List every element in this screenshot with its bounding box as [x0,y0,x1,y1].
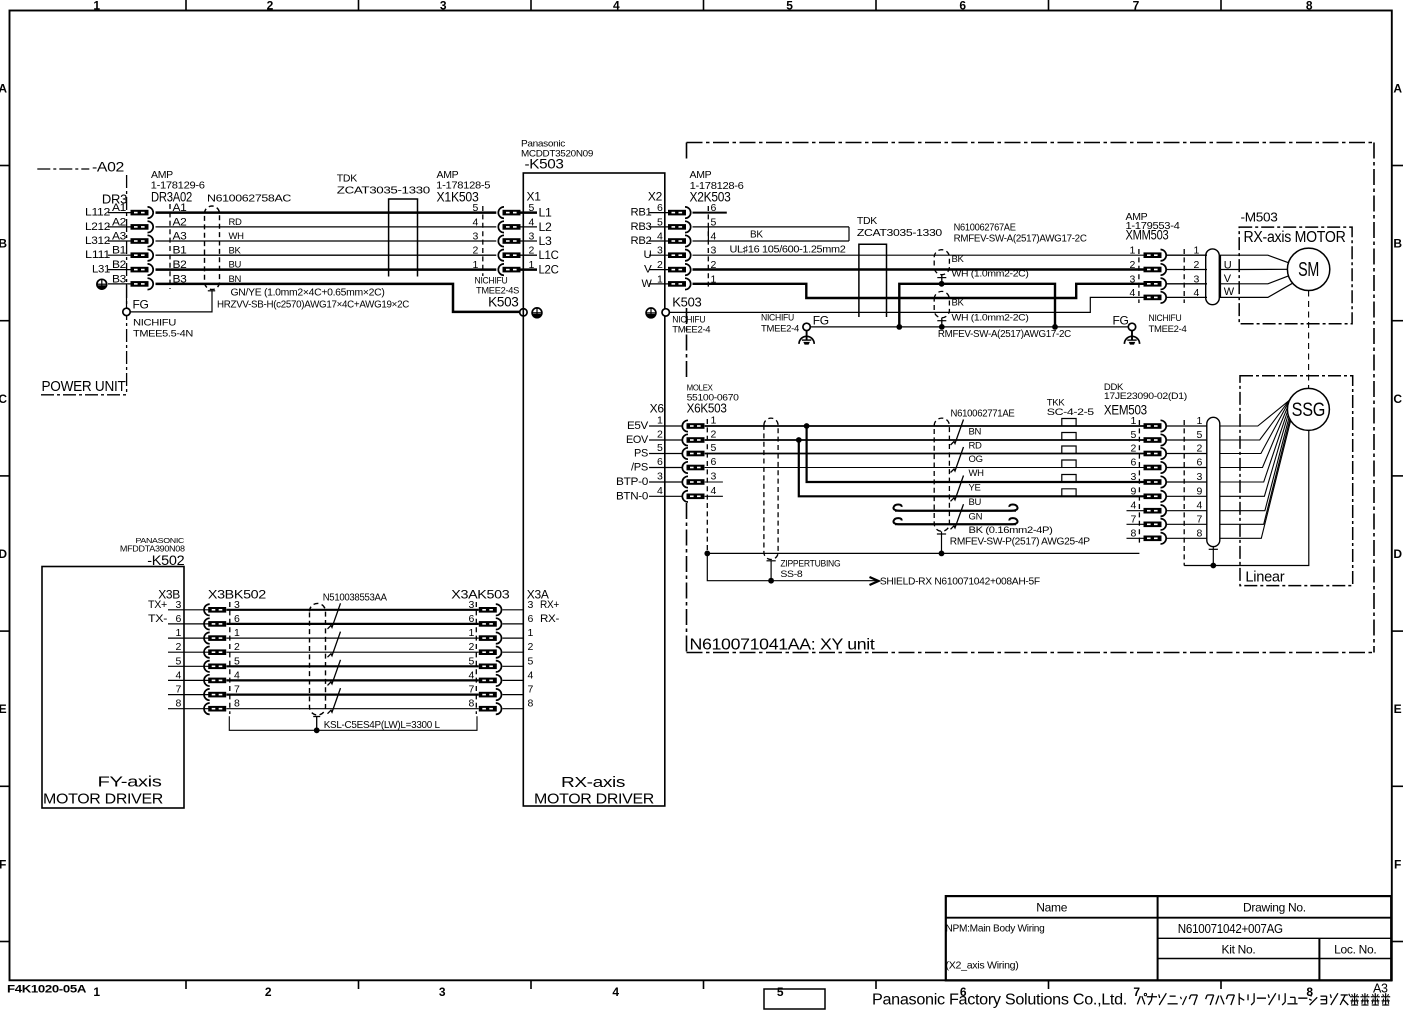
svg-text:GN: GN [969,511,983,522]
svg-text:5: 5 [786,0,793,13]
DR3 pin lead wires [108,213,131,284]
X2K503 pin numbers [711,202,717,285]
svg-text:Name: Name [1036,901,1067,915]
label Panasonic Factory Solutions Japanese [1137,993,1390,1005]
svg-text:7: 7 [1133,0,1140,13]
svg-text:2: 2 [528,641,534,653]
svg-text:RB2: RB2 [631,235,652,247]
svg-text:1: 1 [1194,245,1200,257]
X6 signal labels [616,420,649,502]
X3A wire stubs into box [503,610,525,709]
twisted pair marks X3 cable [328,603,341,713]
wire U into SM [1239,255,1288,263]
svg-text:3: 3 [175,599,181,611]
labels U V W [1224,259,1235,298]
X3 shield bracket [229,716,477,730]
left row letters A-F [0,81,7,871]
PE earth symbol at K503-X2 [646,308,656,318]
svg-text:TDK: TDK [337,173,357,185]
svg-text:2: 2 [1194,259,1200,271]
jumper BK left side [707,227,709,241]
svg-text:RD: RD [969,441,983,452]
svg-text:C: C [0,392,7,406]
wire W X2 to XMM503 [693,284,1144,298]
svg-text:2: 2 [234,641,240,653]
svg-text:N610062767AE: N610062767AE [954,223,1017,234]
svg-text:MFDDTA390N08: MFDDTA390N08 [120,544,185,554]
svg-text:7: 7 [1133,985,1140,999]
wire BTN-0 stub [705,495,723,497]
svg-text:XMM503: XMM503 [1126,228,1169,243]
FG terminal circle left [803,323,810,330]
X1K503 pin numbers [472,202,478,271]
svg-text:F: F [1394,857,1401,871]
svg-text:-K503: -K503 [525,157,564,172]
junction dot cable1 drain [939,281,945,287]
right grid ticks [1392,166,1403,942]
svg-text:RX-axis: RX-axis [561,774,625,791]
connector X6K503 dashed boundary [706,419,708,553]
svg-text:4: 4 [711,485,717,497]
shield bus wire [899,284,1055,327]
block -A02 boundary dash-dot [37,168,89,170]
svg-text:8: 8 [468,698,474,710]
svg-text:WH (1.0mm2-2C): WH (1.0mm2-2C) [952,269,1029,280]
svg-text:8: 8 [234,698,240,710]
connector X3AK503 dashed boundary [475,602,477,714]
wire FG X2 to XMM pin4 [669,297,1144,312]
SHIELD-RX arrowhead [870,577,879,585]
svg-text:3: 3 [528,599,534,611]
svg-text:1: 1 [472,259,478,271]
wire BTP-0 stub [705,481,723,483]
svg-text:2: 2 [265,985,272,999]
X1 wire stubs into box [521,213,538,270]
svg-text:5: 5 [472,202,478,214]
XMM503 pin numbers right [1194,245,1200,299]
svg-text:3: 3 [1129,273,1135,285]
svg-text:UL♯16 105/600-1.25mm2: UL♯16 105/600-1.25mm2 [730,245,847,256]
XEM503 pin numbers left [1130,415,1136,539]
encoder SSG circle [1287,388,1329,430]
svg-text:5: 5 [1130,429,1136,441]
svg-text:2: 2 [267,0,274,13]
zipper tubing sheath [764,418,778,559]
svg-text:9: 9 [1197,485,1203,497]
title block divider v2 [1318,938,1320,980]
svg-text:2: 2 [657,429,663,441]
wire W into SM [1239,276,1288,284]
svg-text:N610071042+007AG: N610071042+007AG [1178,921,1283,936]
svg-text:5: 5 [175,655,181,667]
cable RMFEV-SW-A sheath 1 [934,250,949,275]
svg-text:RB3: RB3 [631,221,652,233]
svg-text:L111: L111 [85,249,110,261]
motor lead cells [1220,255,1239,297]
X3AK503 pin numbers [468,599,474,710]
svg-text:6: 6 [1197,457,1203,469]
X6 pin numbers inside box [657,415,663,497]
svg-text:9: 9 [1130,485,1136,497]
DR3 signal labels L112 L212 L312 L111 L31 [85,207,110,276]
connector XMM503 dashed boundary right [1183,249,1185,303]
svg-text:1: 1 [528,627,534,639]
svg-text:HRZVV-SB-H(c2570)AWG17×4C+AWG1: HRZVV-SB-H(c2570)AWG17×4C+AWG19×2C [217,299,409,310]
svg-text:BN: BN [969,427,982,438]
svg-text:DR3A02: DR3A02 [151,188,192,204]
svg-text:RMFEV-SW-A(2517)AWG17-2C: RMFEV-SW-A(2517)AWG17-2C [938,329,1071,340]
svg-text:WH (1.0mm2-2C): WH (1.0mm2-2C) [952,312,1029,323]
title block divider h1 [946,917,1391,919]
connector X6K503 pins [682,420,704,502]
svg-text:/PS: /PS [631,462,648,474]
svg-text:OG: OG [969,454,983,465]
title block divider h2 [1158,937,1392,939]
shield line to XEM [707,552,1139,554]
wire U X2 to XMM503 [693,254,1144,256]
cable N610062758AC sheath [205,206,220,290]
wire GN/YE B3 to K503 FG [156,284,521,312]
wires X3B to X3A [226,610,478,709]
svg-text:NPM:Main Body Wiring: NPM:Main Body Wiring [946,923,1045,935]
svg-text:3: 3 [472,231,478,243]
connector X1K503 pins [498,207,520,275]
svg-text:Drawing No.: Drawing No. [1243,901,1306,915]
svg-text:1: 1 [93,0,100,13]
motor cable sheath [1206,249,1220,305]
FG line between terminals [810,326,1129,328]
svg-text:5: 5 [657,442,663,454]
X1 pin numbers inside box [529,202,535,271]
svg-text:X6K503: X6K503 [687,401,727,416]
svg-text:BK: BK [750,230,763,241]
XY unit box bottom dash-dot [687,652,1375,654]
svg-text:N610062758AC: N610062758AC [207,193,292,205]
svg-text:-A02: -A02 [92,160,124,175]
svg-text:L212: L212 [85,221,110,233]
encoder wires fan into SSG [1220,391,1298,538]
svg-text:NICHIFU: NICHIFU [1149,313,1182,324]
svg-text:1: 1 [711,415,717,427]
X2 signal labels [631,207,653,290]
wire PS/OG to XEM pin2 [705,453,1144,455]
svg-text:4: 4 [613,0,620,13]
svg-text:Linear: Linear [1245,569,1284,586]
svg-text:K503: K503 [672,295,701,310]
XEM sheath drain [1212,547,1214,566]
right row letters A-F [1393,81,1402,871]
svg-text:4: 4 [657,485,663,497]
svg-text:BK: BK [952,298,965,309]
connector XMM503 pins [1144,250,1167,304]
FG terminal circle K503-X2 [662,309,669,316]
cable2 drain tick [937,320,946,322]
svg-text:W: W [1224,286,1235,298]
svg-text:6: 6 [657,456,663,468]
top grid ticks [186,0,1221,11]
XMM503 wires to sheath [1167,255,1207,297]
svg-text:4: 4 [472,216,478,228]
wire DR3 B3 to FG terminal [126,285,128,309]
svg-text:K503: K503 [488,295,518,310]
XEM sheath drain tick [1209,548,1218,550]
svg-text:1: 1 [1197,415,1203,427]
connector X2K503 pins [668,207,691,290]
XY unit box top dash-dot [687,142,1375,144]
svg-text:Panasonic: Panasonic [521,139,566,149]
block -A02 vertical boundary [126,175,128,395]
connector X3BK502 pins [204,604,226,714]
svg-text:RX-axis MOTOR: RX-axis MOTOR [1244,229,1346,246]
svg-text:5: 5 [1197,429,1203,441]
svg-text:ZCAT3035-1330: ZCAT3035-1330 [337,185,431,197]
svg-text:E: E [0,702,7,716]
wire EOV/RD to XEM pin5 [705,439,1144,441]
svg-text:4: 4 [612,985,619,999]
wire BK spare with hooks [893,518,1016,524]
X6K503 pin numbers [711,415,717,497]
junction dot XEM drain [1210,563,1216,569]
jumper BK right side [848,227,850,241]
motor box -M503 dash-dot [1239,227,1352,324]
svg-text:2: 2 [1130,443,1136,455]
svg-text:F: F [0,857,6,871]
svg-text:4: 4 [528,669,534,681]
svg-text:3: 3 [1130,471,1136,483]
svg-text:V: V [1224,273,1232,285]
svg-text:WH: WH [229,231,245,242]
svg-text:4: 4 [1130,500,1136,512]
svg-text:KSL-C5ES4P(LW)L=3300 L: KSL-C5ES4P(LW)L=3300 L [324,719,440,731]
title block divider vertical [1157,896,1159,980]
svg-text:PS: PS [634,448,648,460]
junction dot shield at X6K503 [704,551,710,557]
wire YE tap [807,426,1144,482]
svg-text:WH: WH [969,468,985,479]
RX-axis MOTOR DRIVER box -K503 [523,173,665,806]
svg-text:D: D [1393,547,1402,561]
X2 pin lead stubs [649,213,668,284]
connector XEM503 pins [1144,420,1167,544]
svg-text:8: 8 [1306,985,1313,999]
PE earth symbol at DR3 B3 [97,279,107,289]
svg-text:SHIELD-RX N610071042+008AH-5F: SHIELD-RX N610071042+008AH-5F [880,577,1040,588]
svg-text:4: 4 [1197,500,1203,512]
twisted pair marks encoder cable [951,420,964,530]
junction dot E5V tap [804,423,810,429]
splice TKK SC-4-2-5 marks [1062,419,1076,496]
SSG ground link [1184,431,1309,566]
svg-text:1: 1 [234,627,240,639]
connector X1K503 dashed boundary [482,206,484,276]
svg-text:BU: BU [229,260,242,271]
svg-text:-M503: -M503 [1241,211,1278,225]
svg-text:BK: BK [952,254,965,265]
title block divider h3 [1158,958,1392,960]
connector X3AK503 pins [479,604,502,714]
svg-text:5: 5 [528,655,534,667]
svg-text:1: 1 [93,985,100,999]
svg-text:RX+: RX+ [540,599,559,611]
X3B pin numbers inside box [175,599,181,710]
svg-text:FG: FG [813,314,829,328]
svg-text:4: 4 [468,669,474,681]
svg-text:6: 6 [175,613,181,625]
DR3A02 pin names A1-B3 [173,202,187,285]
cable N610062771AE drain tick [937,533,946,535]
svg-text:5: 5 [777,985,784,999]
X3A pin numbers inside box [528,599,534,710]
svg-text:6: 6 [711,456,717,468]
XY unit box left dash-dot [686,143,688,159]
FY-axis MOTOR DRIVER box -K502 [42,567,184,809]
ferrite TDK ZCAT3035-1330 left [389,199,418,277]
svg-text:2: 2 [711,429,717,441]
svg-text:L112: L112 [85,207,110,219]
svg-text:L1: L1 [539,208,552,220]
top column numbers 1-8 [93,0,1313,13]
cable N610062771AE drain [941,531,943,553]
encoder wire color labels [969,427,985,523]
svg-text:TMEE2-4: TMEE2-4 [672,325,710,336]
svg-text:TDK: TDK [857,215,877,227]
svg-text:2: 2 [472,245,478,257]
svg-text:8: 8 [1306,0,1313,13]
svg-text:3: 3 [439,985,446,999]
svg-text:17JE23090-02(D1): 17JE23090-02(D1) [1104,391,1187,402]
cable shield drain to FG [130,291,212,312]
svg-text:3: 3 [1197,471,1203,483]
wire V into SM [1239,268,1287,270]
svg-text:E: E [1394,702,1402,716]
svg-text:-K502: -K502 [147,553,184,568]
svg-text:RD: RD [229,217,243,228]
svg-text:8: 8 [528,698,534,710]
wire RB2 jumper bottom [693,240,850,242]
connector XEM503 dashed boundary right [1183,420,1185,566]
svg-text:7: 7 [468,684,474,696]
wire GN spare with hooks [893,504,1016,510]
X3B pin lead stubs [168,610,210,709]
zipper drain tick [767,560,776,562]
svg-text:1: 1 [1129,245,1135,257]
svg-text:7: 7 [1197,513,1203,525]
svg-text:N610062771AE: N610062771AE [951,409,1016,420]
wire RB1 stub [693,212,727,214]
svg-text:POWER UNIT: POWER UNIT [42,378,126,395]
svg-text:NICHIFU: NICHIFU [761,313,794,324]
XEM503 wires to sheath [1167,426,1208,538]
svg-text:L1C: L1C [539,250,559,262]
svg-text:1: 1 [657,415,663,427]
svg-text:BK (0.16mm2-4P): BK (0.16mm2-4P) [969,525,1053,536]
svg-text:7: 7 [175,684,181,696]
svg-text:5: 5 [711,442,717,454]
svg-text:C: C [1393,392,1402,406]
junction dot shield-right on FG line [1052,324,1058,330]
svg-text:FG: FG [1113,314,1129,328]
svg-text:2: 2 [468,641,474,653]
svg-text:BN: BN [229,274,242,285]
DR3 pin names A1-B3 [112,202,126,285]
svg-text:A: A [0,81,7,95]
svg-text:RX-: RX- [540,613,560,625]
PE earth symbol at K503-X1 [532,308,542,318]
svg-text:RMFEV-SW-P(2517) AWG25-4P: RMFEV-SW-P(2517) AWG25-4P [950,536,1091,547]
svg-text:3: 3 [468,599,474,611]
wire color labels RD WH BK BU BN [229,217,245,285]
ferrite TDK ZCAT3035-1330 right [859,244,887,317]
X1 signal labels L1 L2 L3 L1C L2C [539,208,559,277]
wire V X2 to XMM503 [693,268,1144,270]
junction dot shield-left on FG line [896,324,902,330]
wires DR3 to X1K503 rows A1-B2 [156,213,497,270]
FG terminal circle K503-X1 [520,309,527,316]
svg-text:7: 7 [528,684,534,696]
svg-text:BK: BK [229,245,242,256]
svg-text:8: 8 [175,698,181,710]
X3BK502 pin numbers [234,599,240,710]
connector X2K503 dashed boundary [707,206,709,290]
svg-text:8: 8 [1197,527,1203,539]
svg-text:BTN-0: BTN-0 [616,490,648,502]
svg-text:2: 2 [1129,259,1135,271]
bottom column numbers 1-8 [93,985,1313,999]
svg-text:D: D [0,547,7,561]
dashed link SM to SSG [1308,291,1310,389]
wire /PS/WH to XEM pin6 [705,467,1144,469]
junction dot shield at cable drain [939,551,945,557]
encoder sheath at XEM503 [1207,417,1220,546]
svg-text:3: 3 [711,471,717,483]
svg-text:7: 7 [1130,513,1136,525]
POWER UNIT box bottom dash-dot [41,394,127,396]
svg-text:8: 8 [1130,527,1136,539]
wire BU tap [799,440,1144,496]
wire FG into SM [1239,283,1292,297]
svg-text:3: 3 [657,471,663,483]
XY unit box right dash-dot [1373,143,1375,653]
svg-text:4: 4 [1194,287,1200,299]
cable N510038553AA sheath [310,603,326,715]
XEM503 spare pin stubs 4 7 8 [1127,511,1144,539]
svg-text:L2C: L2C [539,265,559,277]
svg-text:SM: SM [1298,259,1319,281]
svg-text:L3: L3 [539,236,552,248]
svg-text:TMEE2-4: TMEE2-4 [1149,324,1187,335]
svg-text:N510038553AA: N510038553AA [323,592,388,603]
svg-text:Kit No.: Kit No. [1222,943,1256,957]
svg-text:FG: FG [133,298,149,312]
svg-text:L31: L31 [92,264,110,276]
svg-text:6: 6 [468,613,474,625]
X3 cable shield symbol [313,716,320,718]
bottom grid ticks [186,980,1221,989]
svg-text:TX+: TX+ [148,599,167,611]
X6 pin lead stubs [649,426,683,496]
svg-text:EOV: EOV [626,434,649,446]
shield drain tick [208,290,215,292]
svg-text:A: A [1393,81,1402,95]
svg-text:MOTOR DRIVER: MOTOR DRIVER [43,791,163,808]
svg-text:RMFEV-SW-A(2517)AWG17-2C: RMFEV-SW-A(2517)AWG17-2C [954,234,1087,245]
svg-text:MOLEX: MOLEX [687,383,714,393]
cable1 drain tick [937,277,946,279]
FG terminal circle right [1128,323,1135,330]
wire RB3 jumper top [693,226,850,228]
svg-text:F4K1020-05A: F4K1020-05A [7,984,86,996]
svg-text:B: B [0,237,7,251]
